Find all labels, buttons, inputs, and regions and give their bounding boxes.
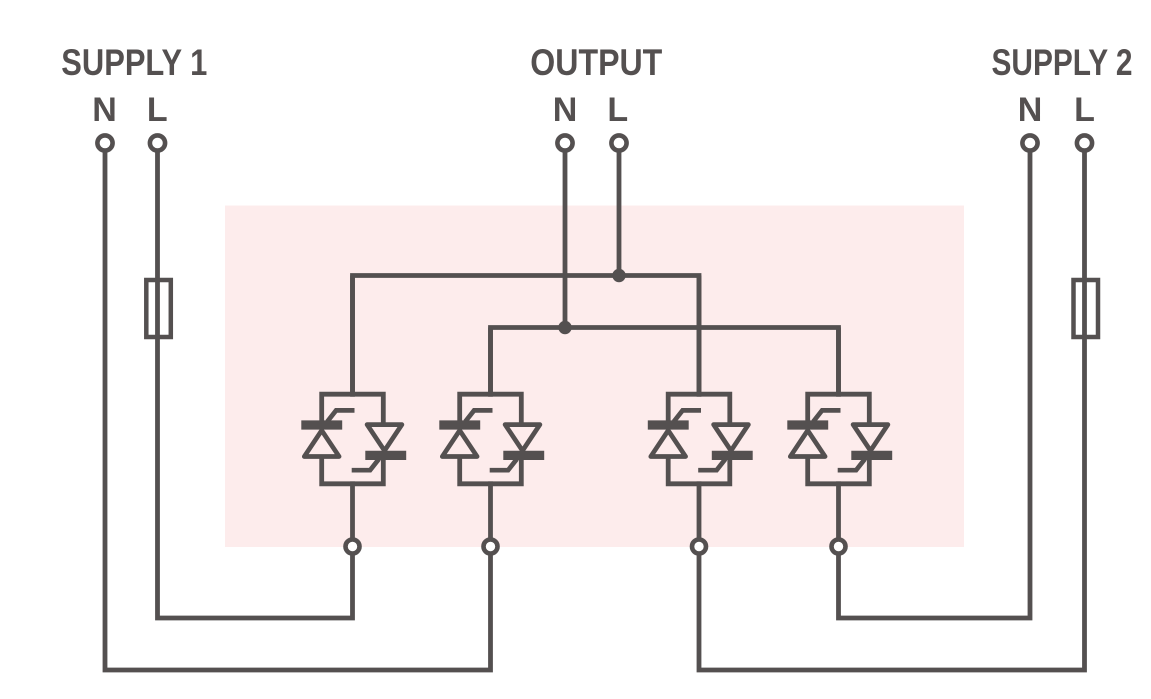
module 4: SCR B cathode bar: [851, 451, 892, 460]
terminal circle output L: [611, 135, 626, 150]
module 2: SCR A cathode bar: [439, 420, 480, 429]
junction: output N on bus 2: [558, 321, 571, 334]
svg-text:N: N: [553, 91, 578, 129]
terminal circle supply 2 L: [1077, 135, 1092, 150]
fuse F2 (supply 2 L): [1074, 280, 1099, 337]
wire: bus 2 (output N to modules 2 and 4): [491, 328, 839, 397]
module 3: SCR A cathode bar: [648, 420, 689, 429]
thyristor pair module 2: top stub wire: [488, 328, 493, 397]
module 1: lower frame wire: [322, 454, 384, 484]
terminal circle supply 1 L: [150, 135, 165, 150]
terminal circle supply 2 N: [1022, 135, 1037, 150]
wire: supply 2 N to module 4 bottom: [839, 145, 1031, 618]
module 1: bottom terminal: [346, 540, 360, 554]
wire: output N drop: [563, 145, 568, 328]
module 4: SCR A cathode bar: [787, 420, 828, 429]
module 1: bottom stub wire: [350, 481, 355, 546]
wire: output L drop: [617, 145, 622, 276]
module 3: SCR B triangle (down): [714, 425, 749, 451]
module 1: upper frame wire: [322, 394, 384, 425]
module 4: bottom terminal: [832, 540, 846, 554]
svg-text:N: N: [92, 91, 117, 129]
module 2: bottom terminal: [484, 540, 498, 554]
terminal circle supply 1 N: [97, 135, 112, 150]
module 1: SCR A gate lead: [327, 410, 354, 421]
junction: output L on bus 1: [612, 269, 625, 282]
module 2: SCR B triangle (down): [505, 425, 540, 451]
module 2: lower frame wire: [460, 454, 522, 484]
module 4: lower frame wire: [808, 454, 870, 484]
module 1: SCR B cathode bar: [365, 451, 406, 460]
module 2: SCR A gate lead: [465, 410, 492, 421]
wire: supply 1 L to module 1 bottom: [158, 145, 353, 618]
module 1: SCR A triangle (up): [304, 430, 339, 456]
module 2: bottom stub wire: [488, 481, 493, 546]
module 4: SCR B gate lead: [838, 459, 865, 470]
module 3: SCR B cathode bar: [712, 451, 753, 460]
svg-text:SUPPLY 2: SUPPLY 2: [992, 42, 1133, 83]
module 3: SCR A triangle (up): [651, 430, 686, 456]
module 3: bottom terminal: [692, 540, 706, 554]
module 2: SCR A triangle (up): [442, 430, 477, 456]
module 3: bottom stub wire: [697, 481, 702, 546]
module 2: SCR B gate lead: [490, 459, 517, 470]
module 4: upper frame wire: [808, 394, 870, 425]
module 2: upper frame wire: [460, 394, 522, 425]
svg-text:OUTPUT: OUTPUT: [530, 42, 662, 83]
module 1: SCR B gate lead: [352, 459, 379, 470]
wire: supply 1 N to module 2 bottom: [105, 145, 491, 670]
svg-text:L: L: [1074, 91, 1095, 129]
module 4: SCR B triangle (down): [853, 425, 888, 451]
module 4: SCR A gate lead: [813, 410, 840, 421]
thyristor pair module 1: top stub wire: [350, 276, 355, 397]
module 1: SCR B triangle (down): [367, 425, 402, 451]
module 3: lower frame wire: [668, 454, 730, 484]
module 1: SCR A cathode bar: [301, 420, 342, 429]
module 3: upper frame wire: [668, 394, 730, 425]
terminal circle output N: [557, 135, 572, 150]
svg-text:L: L: [147, 91, 168, 129]
module 4: SCR A triangle (up): [790, 430, 825, 456]
svg-text:N: N: [1018, 91, 1043, 129]
thyristor pair module 4: top stub wire: [836, 328, 841, 397]
svg-text:L: L: [607, 91, 628, 129]
switch block highlight region: [225, 206, 964, 548]
fuse F1 (supply 1 L): [146, 280, 171, 337]
module 2: SCR B cathode bar: [503, 451, 544, 460]
module 3: SCR A gate lead: [674, 410, 701, 421]
module 4: bottom stub wire: [836, 481, 841, 546]
module 3: SCR B gate lead: [698, 459, 725, 470]
wire: bus 1 (output L to modules 1 and 3): [353, 276, 700, 397]
thyristor pair module 3: top stub wire: [697, 276, 702, 397]
svg-text:SUPPLY 1: SUPPLY 1: [61, 42, 207, 83]
wire: supply 2 L to module 3 bottom: [699, 145, 1085, 670]
